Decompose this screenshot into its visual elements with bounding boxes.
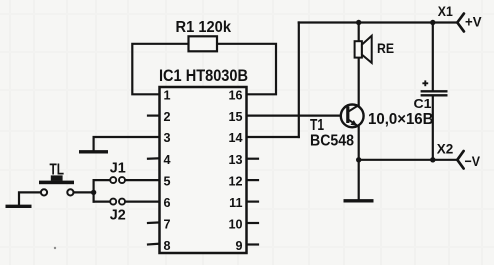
svg-text:T1: T1 xyxy=(310,117,324,134)
pin stub 10 xyxy=(247,222,259,224)
ground (button TL) xyxy=(6,205,32,208)
wire emitter junction to ground xyxy=(358,160,360,200)
jumper J2 xyxy=(110,199,125,205)
node X2/C1 xyxy=(430,157,435,162)
svg-text:3: 3 xyxy=(164,131,171,145)
svg-text:−V: −V xyxy=(465,153,481,169)
pin stub 11 xyxy=(247,201,259,203)
svg-text:8: 8 xyxy=(164,239,171,253)
node junction TL/J1/J2 xyxy=(91,190,96,195)
push button TL xyxy=(39,175,74,195)
wire C1 bottom to X2 rail xyxy=(432,96,434,160)
svg-text:10: 10 xyxy=(228,217,242,231)
pin stub 12 xyxy=(247,179,259,181)
wire R1 right to pin16 xyxy=(217,44,276,95)
svg-text:BC548: BC548 xyxy=(310,133,354,150)
node speaker/+V rail xyxy=(356,20,361,25)
svg-text:X2: X2 xyxy=(437,141,454,157)
wire pin3 to ground xyxy=(94,137,160,150)
speaker RE xyxy=(355,36,372,63)
op-amp U1 : IC1 body xyxy=(160,87,247,253)
terminal X1 xyxy=(457,14,464,32)
pin stub 4 xyxy=(148,157,160,160)
transistor T1 xyxy=(341,105,364,128)
ground (emitter) xyxy=(344,199,374,202)
wire J1 to pin5 xyxy=(125,179,159,181)
svg-text:IC1 HT8030B: IC1 HT8030B xyxy=(159,67,248,85)
svg-text:TL: TL xyxy=(50,162,65,179)
svg-text:R1 120k: R1 120k xyxy=(176,19,232,36)
wire speaker top xyxy=(358,23,360,42)
wire pin15 to transistor base xyxy=(247,114,348,116)
wire TL right contact to junction xyxy=(74,191,94,193)
svg-text:C1: C1 xyxy=(414,96,432,111)
pin stub 13 xyxy=(247,158,259,160)
wire emitter down xyxy=(358,127,360,160)
wire TL left contact to ground xyxy=(19,192,41,204)
node emitter/-V rail xyxy=(356,157,361,162)
svg-text:2: 2 xyxy=(164,110,171,124)
wire junction branch vertical xyxy=(92,180,94,202)
svg-text:16: 16 xyxy=(228,89,242,103)
wire J2 to pin6 xyxy=(125,201,159,203)
svg-text:4: 4 xyxy=(164,153,171,167)
svg-text:15: 15 xyxy=(228,110,242,124)
pin stub 9 xyxy=(247,243,259,245)
pin stub 8 xyxy=(148,243,160,246)
svg-text:X1: X1 xyxy=(438,3,453,19)
node X1/C1 xyxy=(430,20,435,25)
jumper J1 xyxy=(110,177,125,183)
svg-text:1: 1 xyxy=(164,89,171,103)
pin stub 2 xyxy=(148,114,160,116)
svg-text:+V: +V xyxy=(465,14,482,30)
terminal X2 xyxy=(457,151,463,169)
wire top +V rail xyxy=(299,21,458,23)
svg-text:J2: J2 xyxy=(110,207,126,224)
wire pin14 xyxy=(247,136,299,138)
svg-text:5: 5 xyxy=(164,174,171,188)
wire junction to J2 xyxy=(94,201,111,203)
svg-text:9: 9 xyxy=(235,239,242,253)
wire rail-left vertical down to pin14 xyxy=(298,23,300,138)
svg-text:J1: J1 xyxy=(110,159,126,176)
svg-text:7: 7 xyxy=(164,217,171,231)
scan speck xyxy=(54,247,56,249)
svg-text:12: 12 xyxy=(228,174,242,188)
pin stub 7 xyxy=(148,221,160,224)
wire speaker bottom to collector xyxy=(358,58,360,105)
svg-text:6: 6 xyxy=(164,196,171,210)
ground (pin 3) xyxy=(79,150,108,153)
wire X1 down to C1 xyxy=(432,23,434,91)
wire junction to J1 xyxy=(94,179,111,181)
svg-text:10,0×16В: 10,0×16В xyxy=(368,111,434,128)
wire -V rail xyxy=(359,159,458,161)
svg-text:14: 14 xyxy=(228,131,242,145)
resistor R1 xyxy=(189,36,218,51)
wire pin1 to R1 loop left xyxy=(132,44,188,95)
svg-text:13: 13 xyxy=(228,153,242,167)
svg-text:RE: RE xyxy=(377,40,394,56)
capacitor C1 xyxy=(421,80,448,95)
svg-text:11: 11 xyxy=(229,196,242,210)
